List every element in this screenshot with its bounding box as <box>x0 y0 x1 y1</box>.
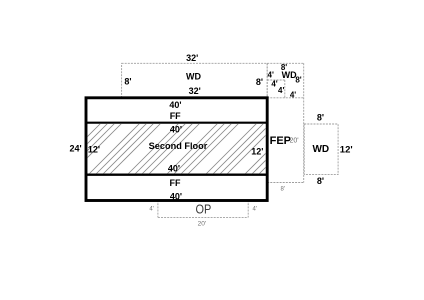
wire interior line second floor / lower FF <box>86 173 267 175</box>
svg-text:WD: WD <box>186 72 201 82</box>
svg-text:40': 40' <box>170 192 182 202</box>
svg-text:FF: FF <box>170 178 181 188</box>
svg-text:8': 8' <box>256 77 263 87</box>
svg-text:Second Floor: Second Floor <box>149 141 208 151</box>
top-right WD L-shaped deck + FEP porch dashed outline <box>267 63 304 182</box>
svg-text:FF: FF <box>170 111 181 121</box>
svg-text:40': 40' <box>168 164 180 174</box>
OP open porch dashed outline <box>158 200 248 217</box>
wire step horizontal 4' <box>267 79 285 81</box>
svg-text:4': 4' <box>252 206 256 212</box>
main building outline <box>86 98 267 201</box>
svg-text:12': 12' <box>251 147 263 157</box>
svg-text:OP: OP <box>196 202 212 217</box>
svg-text:8': 8' <box>317 112 324 122</box>
svg-text:8': 8' <box>124 77 131 87</box>
svg-text:20': 20' <box>289 138 298 145</box>
wire FEP top edge <box>267 97 304 99</box>
svg-text:12': 12' <box>340 144 353 155</box>
svg-text:4': 4' <box>278 86 284 95</box>
svg-text:20': 20' <box>198 220 206 227</box>
wire right edge shared WD/FEP <box>303 63 305 182</box>
svg-text:8': 8' <box>317 176 324 186</box>
svg-text:4': 4' <box>271 80 277 89</box>
svg-text:8': 8' <box>280 186 284 192</box>
svg-text:4': 4' <box>290 90 296 99</box>
svg-text:32': 32' <box>189 86 201 96</box>
svg-text:8': 8' <box>295 76 301 85</box>
svg-text:4': 4' <box>268 70 274 79</box>
svg-text:24': 24' <box>70 143 82 153</box>
wire interior line upper FF / second floor <box>86 122 267 124</box>
svg-text:32': 32' <box>186 53 198 63</box>
svg-text:FEP: FEP <box>270 135 291 147</box>
top wood deck WD box (32x8) dashed outline <box>122 63 268 98</box>
wire step vertical 4' <box>284 80 286 98</box>
svg-text:4': 4' <box>149 206 153 212</box>
wire left edge 4' <box>266 63 268 98</box>
svg-text:12': 12' <box>88 145 100 155</box>
wire top edge 8' <box>267 62 304 64</box>
right WD deck box (8x12) dashed outline <box>304 124 338 175</box>
svg-text:WD: WD <box>312 144 329 155</box>
svg-text:40': 40' <box>170 125 182 135</box>
wire FEP bottom edge 8' <box>267 182 304 184</box>
svg-text:40': 40' <box>169 100 181 110</box>
